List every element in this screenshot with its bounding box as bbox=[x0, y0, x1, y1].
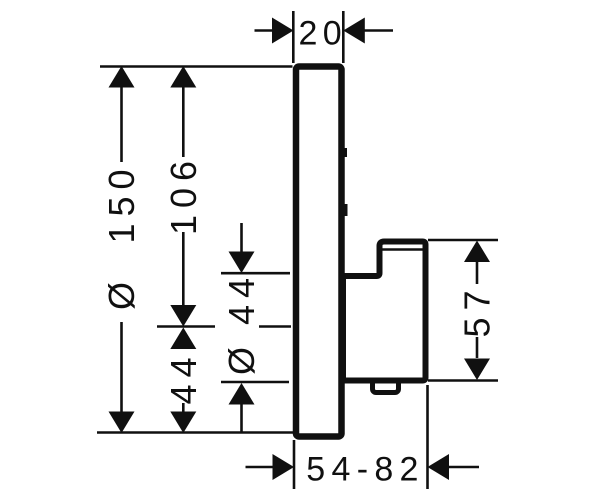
svg-text:54-82: 54-82 bbox=[306, 451, 424, 489]
svg-text:57: 57 bbox=[457, 283, 498, 337]
dimension line O44 upper tail bbox=[240, 223, 243, 252]
arrow 54-82 left bbox=[273, 454, 295, 480]
nub on plate right edge upper bbox=[344, 148, 347, 157]
arrow 44 left top bbox=[170, 328, 196, 350]
dimension line 57 lower tail bbox=[476, 337, 479, 358]
dimension line 20 left tail bbox=[255, 29, 275, 32]
dimension line 54-82 left tail bbox=[246, 466, 274, 469]
extension line handle top bbox=[221, 272, 290, 275]
svg-text:150: 150 bbox=[101, 162, 142, 243]
dimension line 57 upper tail bbox=[476, 262, 479, 284]
dimension line 54-82 right tail bbox=[449, 466, 480, 469]
svg-text:20: 20 bbox=[299, 15, 347, 53]
extension line 54-82 left bbox=[293, 440, 296, 489]
arrow 106 bottom bbox=[170, 305, 196, 327]
dimension line 20 right tail bbox=[363, 29, 393, 32]
arrow 20 left bbox=[272, 18, 294, 44]
extension line plate top bbox=[100, 65, 293, 68]
extension line right of 20 dim bbox=[342, 11, 345, 63]
svg-text:Ø: Ø bbox=[221, 347, 262, 375]
dimension line O150 lower tail bbox=[120, 322, 123, 412]
extension line 57 bottom bbox=[428, 379, 498, 382]
extension line plate bottom bbox=[97, 431, 293, 434]
extension line handle bottom bbox=[221, 381, 289, 384]
svg-text:106: 106 bbox=[163, 154, 204, 235]
dimension line 44 left lower tail bbox=[182, 403, 185, 412]
arrow O44 bottom bbox=[229, 383, 255, 405]
arrow 54-82 right bbox=[428, 454, 450, 480]
extension line 54-82 right bbox=[426, 385, 429, 489]
center extension line right segment bbox=[259, 325, 291, 328]
arrow O150 bottom bbox=[109, 412, 135, 434]
dimension line O44 lower tail bbox=[240, 404, 243, 433]
arrow 44 left bottom bbox=[170, 412, 196, 434]
dimension line 106 upper tail bbox=[182, 86, 185, 157]
svg-text:44: 44 bbox=[163, 350, 204, 404]
arrow 106 top bbox=[170, 66, 196, 88]
svg-text:Ø: Ø bbox=[101, 282, 142, 310]
extension line 57 top bbox=[428, 239, 498, 242]
dimension line 106 lower tail bbox=[182, 232, 185, 306]
small clip tab under handle bbox=[373, 372, 399, 393]
arrow 57 bottom bbox=[464, 359, 490, 381]
arrow O44 top bbox=[229, 252, 255, 274]
cap inner seam line bbox=[383, 248, 424, 250]
handle body with cap (side view) bbox=[343, 242, 426, 381]
arrow O150 top bbox=[109, 66, 135, 88]
center extension line left segment bbox=[157, 325, 215, 328]
svg-text:44: 44 bbox=[221, 271, 262, 325]
arrow 20 right bbox=[343, 18, 365, 44]
dimension line O150 upper tail bbox=[120, 86, 123, 162]
wall plate (side view) bbox=[296, 67, 342, 437]
nub on plate right edge lower bbox=[344, 204, 348, 216]
arrow 57 top bbox=[464, 241, 490, 263]
extension line left of 20 dim bbox=[292, 11, 295, 63]
